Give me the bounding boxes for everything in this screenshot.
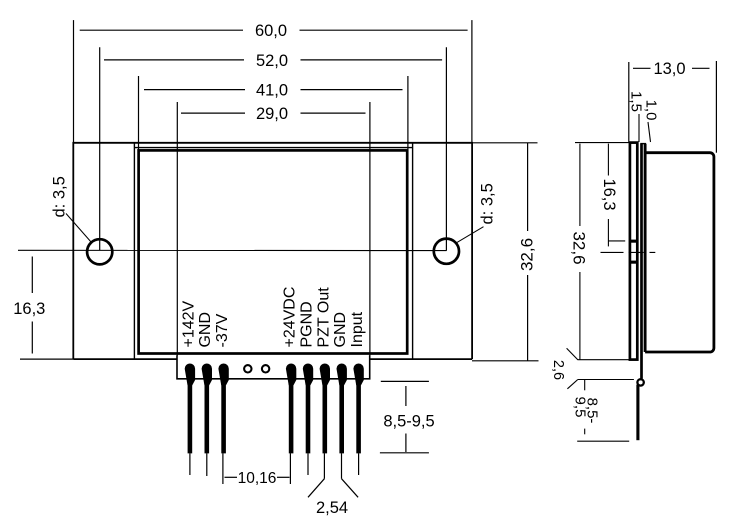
dimension 8,5-9,5 front: [380, 381, 429, 452]
dimension 32,6 side: [575, 143, 630, 360]
hole bar bottom: [629, 261, 638, 264]
svg-text:32,6: 32,6: [569, 231, 588, 264]
body thick outline (41 wide): [139, 150, 408, 353]
svg-text:1,5: 1,5: [628, 91, 645, 112]
dimension 41,0: [144, 89, 403, 91]
svg-text:29,0: 29,0: [256, 105, 288, 123]
svg-text:-37V: -37V: [214, 313, 231, 347]
leader 1,0: [648, 122, 651, 142]
dimension 16,3 front: [20, 257, 73, 360]
svg-text:PGND: PGND: [298, 301, 315, 347]
dimension 60,0: [80, 29, 468, 31]
connector strip (29 wide): [177, 355, 370, 379]
svg-text:16,3: 16,3: [13, 300, 45, 318]
extension line 29,0 left: [176, 102, 178, 356]
extension line 60,0 left: [73, 20, 75, 143]
body outer thin outline: [134, 143, 412, 359]
dimension 29,0: [181, 112, 366, 114]
svg-text:10,16: 10,16: [238, 470, 277, 487]
svg-text:32,6: 32,6: [517, 238, 536, 271]
plate B top cap: [640, 143, 646, 145]
svg-text:d: 3,5: d: 3,5: [479, 183, 497, 224]
body side outline: [645, 153, 714, 352]
pin labels front: [180, 287, 366, 348]
pin side: [636, 385, 639, 441]
dashed hole centerline side: [601, 251, 656, 253]
svg-text:GND: GND: [332, 312, 349, 348]
svg-text:41,0: 41,0: [256, 82, 288, 100]
body front edge side: [644, 144, 647, 352]
mounting hole right: [434, 239, 459, 264]
dimension 8,5-9,5 side: [577, 380, 629, 441]
svg-text:16,3: 16,3: [600, 178, 618, 210]
svg-text:9,5: 9,5: [572, 397, 589, 418]
svg-text:2,6: 2,6: [550, 360, 566, 380]
hole bar top: [629, 240, 638, 243]
leader d:3,5 right: [456, 227, 483, 243]
dimension 52,0: [104, 59, 442, 61]
svg-text:Input: Input: [349, 311, 366, 347]
svg-text:PZT Out: PZT Out: [315, 287, 332, 348]
svg-text:d: 3,5: d: 3,5: [51, 176, 69, 217]
svg-text:8,5-9,5: 8,5-9,5: [383, 412, 434, 430]
mounting hole left: [87, 239, 112, 264]
svg-text:1,0: 1,0: [643, 100, 660, 121]
extension line 60,0 right: [471, 20, 473, 143]
hole center vertical extension left (52,0): [99, 47, 101, 250]
svg-text:60,0: 60,0: [255, 22, 287, 40]
svg-text:GND: GND: [197, 312, 214, 348]
leader d:3,5 left: [66, 214, 92, 243]
svg-text:13,0: 13,0: [653, 60, 685, 78]
extension line 29,0 right: [369, 102, 371, 356]
pin hook circle: [637, 379, 643, 385]
dimension 32,6 front: [472, 143, 539, 361]
flange plate side: [630, 143, 637, 360]
svg-text:+24VDC: +24VDC: [282, 287, 299, 348]
pin tails thick: [190, 379, 359, 453]
leaders 2,54: [308, 479, 358, 498]
pin thin extensions: [190, 453, 359, 484]
flange plate outline (60 x 32,6): [73, 143, 472, 359]
svg-text:2,54: 2,54: [316, 499, 348, 517]
extension line 41,0 left: [138, 76, 140, 150]
leader 1,5: [638, 114, 640, 142]
strip circles: [244, 365, 251, 372]
dimension 10,16: [225, 476, 290, 478]
dimension 13,0: [629, 61, 717, 153]
dimension 16,3 side: [608, 144, 625, 247]
plate B (pin strip) line: [640, 144, 643, 379]
svg-text:52,0: 52,0: [256, 52, 288, 70]
extension line 41,0 right: [407, 76, 409, 149]
hole centerline horizontal: [18, 249, 446, 251]
hole center vertical extension right (52,0): [445, 47, 447, 251]
svg-text:+142V: +142V: [180, 300, 197, 347]
pin heads: [185, 364, 364, 386]
